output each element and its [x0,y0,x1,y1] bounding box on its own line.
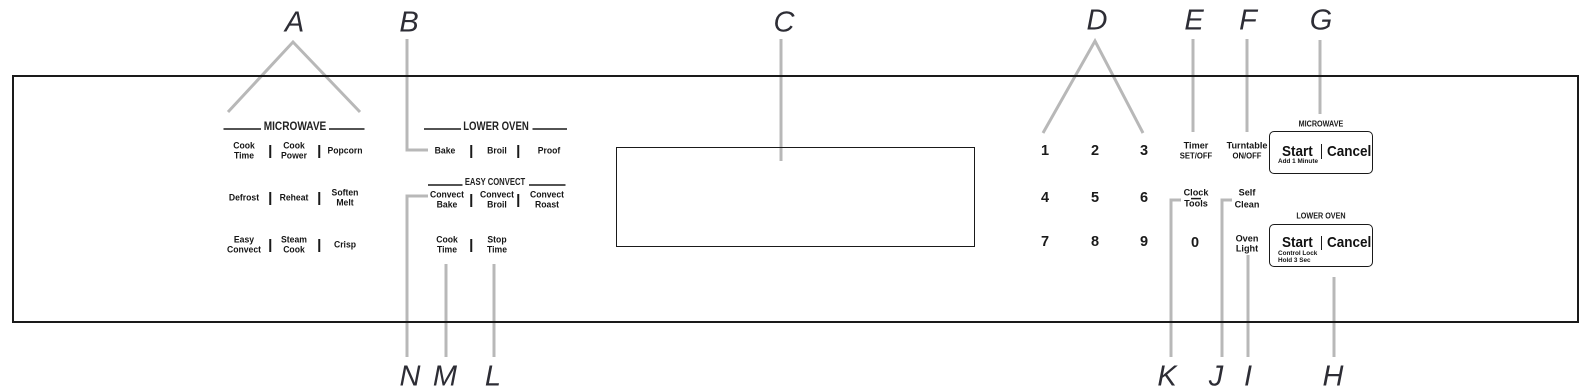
keypad 0 [1191,236,1199,251]
separator [517,145,519,158]
button Self Clean [1235,187,1260,210]
rule right of EASY CONVECT [529,184,566,186]
callout letter I [1244,363,1252,391]
callout letter H [1323,363,1344,391]
separator [517,194,519,207]
rule left of MICROWAVE [224,128,262,130]
label LOWER OVEN above start button [1296,212,1345,221]
separator [318,239,320,252]
button Stop Time [487,236,507,255]
callout letter E [1184,7,1203,36]
callout letter D [1087,7,1108,36]
node A leader V [228,42,360,112]
keypad 8 [1091,235,1099,250]
heading MICROWAVE [264,120,327,132]
callout letter B [399,9,418,38]
separator [269,192,271,205]
separator [269,145,271,158]
node G leader [1319,40,1322,114]
button Steam Cook [281,236,307,255]
button Convect Bake [430,191,464,210]
node H leader [1333,277,1336,357]
keypad 5 [1091,191,1099,206]
heading EASY CONVECT [465,177,525,188]
keypad 4 [1041,191,1049,206]
keypad 1 [1041,144,1049,159]
separator [318,145,320,158]
callout letter J [1209,363,1224,391]
keypad 7 [1041,235,1049,250]
button Cook Power [281,142,307,161]
button Popcorn [327,146,362,156]
button Timer SET/OFF [1180,142,1212,161]
node I leader [1247,255,1250,357]
separator [318,192,320,205]
rule right of LOWER OVEN [533,128,568,130]
callout letter G [1310,7,1333,36]
button Oven Light [1236,235,1259,254]
button Start/Cancel lower oven [1269,224,1373,267]
callout letter L [485,363,501,391]
button Bake [435,146,456,156]
button Crisp [334,240,356,250]
button Cook Time (lower oven) [436,236,458,255]
label MICROWAVE above start button [1299,120,1344,129]
button Start/Cancel microwave [1269,131,1373,174]
button Cook Time (microwave) [233,142,255,161]
heading LOWER OVEN [463,120,529,132]
button Defrost [229,193,259,203]
keypad 3 [1140,144,1148,159]
callout letter N [400,363,421,391]
button Reheat [280,193,309,203]
node F leader [1246,39,1249,132]
keypad 2 [1091,144,1099,159]
node B leader [407,39,428,150]
button Soften Melt [332,189,359,208]
node J leader [1222,200,1232,357]
button Convect Roast [530,191,564,210]
node M leader [445,264,448,357]
node L leader [493,264,496,357]
node K leader [1171,200,1181,357]
button Broil [487,146,507,156]
node N leader [407,196,428,357]
control panel outline [12,75,1579,323]
button Easy Convect [227,236,261,255]
node D leader V [1043,41,1143,133]
callout letter M [433,363,457,391]
separator [470,194,472,207]
node C leader [780,39,783,161]
callout letter F [1239,7,1257,36]
node E leader [1192,39,1195,132]
callout letter K [1157,363,1176,391]
separator [470,239,472,252]
callout letter C [774,9,795,38]
separator [470,145,472,158]
button Proof [538,146,561,156]
rule left of EASY CONVECT [428,184,463,186]
button Clock Tools [1184,187,1209,210]
button Convect Broil [480,191,514,210]
display window C [616,147,975,247]
rule right of MICROWAVE [329,128,365,130]
keypad 6 [1140,191,1148,206]
callout letter A [285,9,304,38]
separator [269,239,271,252]
keypad 9 [1140,235,1148,250]
rule left of LOWER OVEN [424,128,461,130]
dash under Clock [1191,198,1201,200]
button Turntable ON/OFF [1227,142,1268,161]
